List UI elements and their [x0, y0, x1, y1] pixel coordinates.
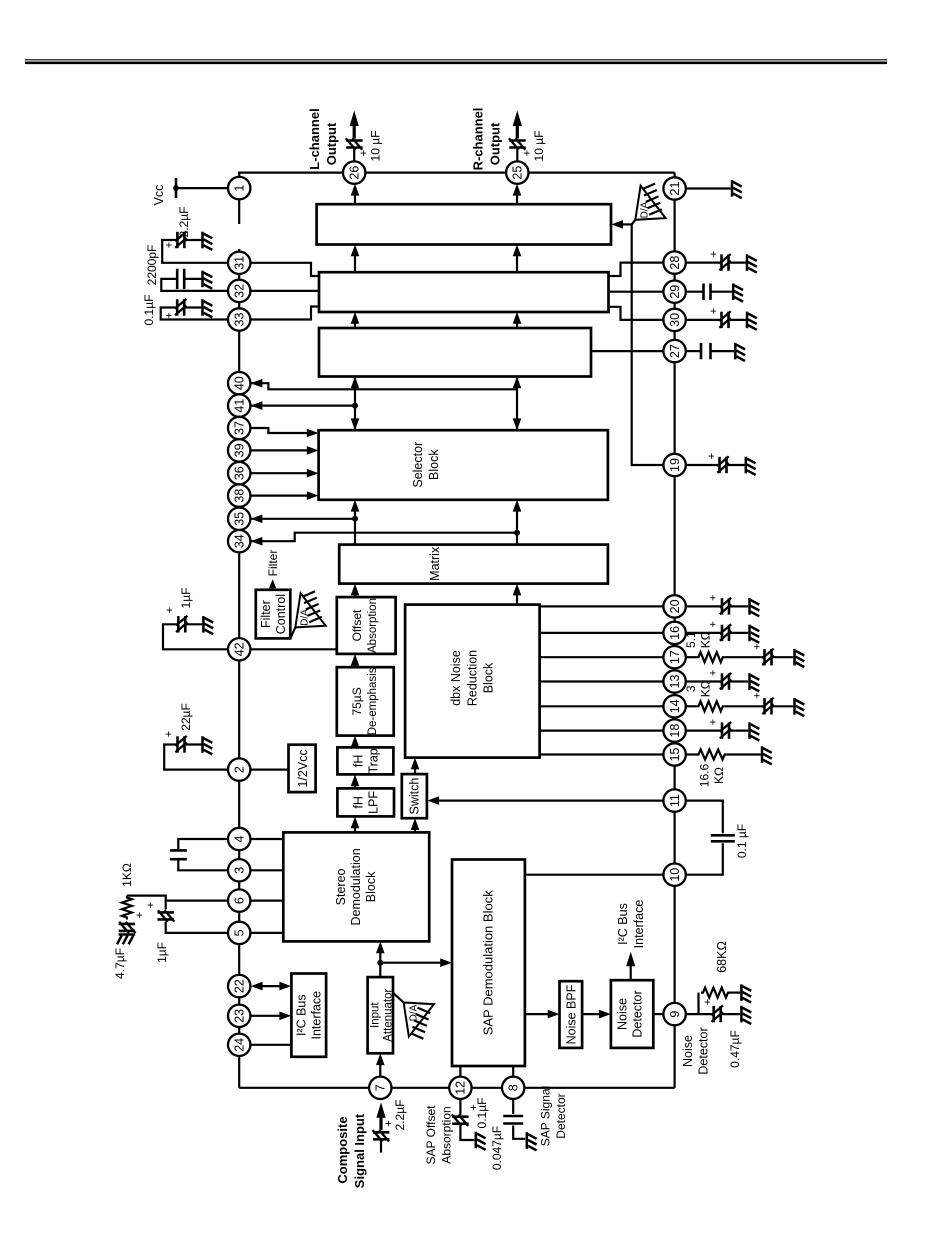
svg-text:KΩ: KΩ — [699, 631, 713, 648]
svg-text:Detector: Detector — [554, 1093, 568, 1138]
capacitor 1uF (pin 42) — [176, 616, 187, 633]
wire: cap to ground — [513, 1126, 525, 1139]
wire: cap to ground — [460, 1125, 474, 1140]
svg-text:19: 19 — [668, 458, 682, 472]
capacitor 10uF (pin 25) — [509, 138, 526, 149]
svg-text:Noise BPF: Noise BPF — [565, 984, 579, 1044]
svg-text:36: 36 — [233, 466, 247, 480]
capacitor 4.7uF — [119, 922, 136, 933]
wire: fH LPF to fH Trap arrow — [354, 779, 356, 788]
pin 2 — [228, 758, 250, 780]
wire: SAP to Noise BPF arrow — [525, 1013, 555, 1015]
resistor 68Kohm — [701, 988, 730, 998]
resistor 3KΩ (pin 14) — [697, 701, 725, 711]
svg-text:42: 42 — [233, 642, 247, 656]
capacitor 1uF (pins 6-5) — [165, 901, 167, 910]
wire: Stereo to Switch arrow — [414, 823, 416, 833]
svg-text:+: + — [706, 453, 718, 459]
capacitor 2.2uF (input) — [373, 1130, 390, 1141]
wire: pin 34 tap to R path — [250, 533, 517, 542]
ground (1uF pin42) — [203, 616, 213, 634]
wire: 1uF to pin 5 — [166, 922, 229, 933]
pin 16 — [663, 622, 685, 644]
ground (2200pF) — [203, 271, 213, 289]
wire: R path B to A arrow — [516, 249, 518, 272]
junction: pin35/L-path — [352, 516, 358, 522]
svg-text:Matrix: Matrix — [428, 546, 442, 581]
wire: pin 6 up — [127, 896, 228, 901]
wire: cap to ground — [185, 239, 203, 241]
wire: pin 2 to C 22uF — [164, 745, 228, 770]
svg-text:14: 14 — [668, 699, 682, 713]
ground (pin 13) — [750, 673, 760, 691]
ground (pin 27) — [735, 343, 745, 361]
svg-text:Composite: Composite — [335, 1116, 350, 1183]
pin 19 — [663, 454, 685, 476]
block U: Selector Block — [319, 430, 608, 500]
wire: cap to ground — [185, 743, 202, 745]
wire: to ground — [772, 705, 794, 707]
wire: BPF to Noise Detector arrow — [582, 1013, 606, 1015]
wire: main bottom bus — [673, 200, 675, 1088]
svg-text:3: 3 — [684, 685, 698, 692]
ground (pin 15) — [762, 746, 772, 764]
wire: to ground — [729, 632, 748, 634]
svg-text:32: 32 — [233, 284, 247, 298]
block U: fH Trap — [337, 747, 393, 774]
block U: Noise Detector — [611, 980, 653, 1048]
wire: dbx to pin 14 — [540, 705, 664, 707]
wire: resistor to cap — [725, 705, 765, 707]
wire: cap to ground — [184, 278, 202, 280]
pin 9 — [663, 1003, 685, 1025]
svg-text:Detector: Detector — [631, 990, 645, 1037]
pin 27 — [663, 340, 685, 362]
wire: to ground — [729, 319, 746, 321]
wire: pin 27 to amp3 — [591, 350, 663, 352]
capacitor (pin 16) — [720, 624, 731, 641]
wire: 75uS to Offset arrow — [354, 659, 356, 668]
svg-text:I²C Bus: I²C Bus — [295, 994, 309, 1036]
svg-text:31: 31 — [233, 256, 247, 270]
wire: pin 37 to Selector — [250, 428, 314, 433]
svg-text:Reduction: Reduction — [466, 650, 480, 706]
ground (pin 16) — [750, 625, 760, 643]
capacitor (pin 28) — [719, 254, 730, 271]
svg-text:30: 30 — [668, 313, 682, 327]
block U: Switch — [402, 774, 427, 818]
wire: R path C to B arrow — [516, 317, 518, 328]
capacitor (pin 19) — [717, 456, 728, 473]
wire: dbx to pin 18 — [540, 729, 664, 731]
svg-text:16: 16 — [668, 626, 682, 640]
wire: pin 23 arrow to I2C — [250, 1015, 287, 1017]
pin 18 — [663, 719, 685, 741]
svg-text:L-channel: L-channel — [307, 108, 322, 169]
wire: resistor to cap — [725, 656, 765, 658]
pin 5 — [228, 922, 250, 944]
wire: pin 26 to output cap — [353, 149, 355, 161]
wire: left bus down to pin 7/12/8 — [239, 1087, 674, 1089]
svg-text:20: 20 — [668, 599, 682, 613]
wire: pin 31 to C 2.2uF — [162, 240, 228, 263]
svg-text:0.47µF: 0.47µF — [728, 1030, 742, 1068]
wire: Noise Detector to I2C arrow — [630, 959, 632, 980]
resistor 5.1KΩ (pin 17) — [697, 652, 725, 662]
wire: L path Selector-C double arrow — [354, 377, 356, 431]
pin 29 — [663, 281, 685, 303]
capacitor (pin 13) — [720, 673, 731, 690]
capacitor (pin 14) — [762, 698, 773, 715]
block U: Input Attenuator — [368, 977, 393, 1053]
wire: pin 4 to stereo block — [250, 838, 283, 840]
wire: Stereo to fH LPF arrow — [354, 821, 356, 832]
wire: cap to ground — [185, 306, 203, 308]
svg-text:0.1µF: 0.1µF — [475, 1098, 489, 1129]
svg-text:Output: Output — [487, 122, 502, 165]
wire: pin 2 to 1/2Vcc — [250, 768, 288, 770]
pin 11 — [663, 789, 685, 811]
svg-text:Selector: Selector — [411, 442, 425, 488]
capacitor (pin 20) — [720, 598, 731, 615]
svg-text:26: 26 — [348, 166, 362, 180]
wire: pin 20 down — [686, 605, 722, 607]
svg-text:Block: Block — [364, 871, 378, 902]
block: amplifier 2 (unlabeled) — [319, 272, 609, 312]
wire: pin 21 to ground — [686, 187, 731, 189]
svg-text:6: 6 — [233, 897, 247, 904]
pin 31 — [228, 252, 250, 274]
svg-text:1µF: 1µF — [179, 588, 193, 609]
wire: pin 33 to C 0.1uF — [161, 308, 229, 320]
D/A converter (output amp) — [632, 184, 666, 225]
svg-text:+: + — [708, 621, 720, 627]
ground (22uF) — [203, 736, 213, 754]
wire: to ground — [729, 680, 748, 682]
wire: D/A control line to pin 19 — [632, 224, 664, 465]
svg-text:10: 10 — [668, 868, 682, 882]
svg-text:R-channel: R-channel — [470, 108, 485, 171]
resistor 16.6Kohm (pin 15) — [697, 750, 727, 760]
svg-text:Detector: Detector — [697, 1027, 711, 1074]
D/A converter (filter control) — [290, 591, 325, 638]
wire: attenuator out / junction — [379, 946, 381, 977]
wire: pin 3 to stereo block — [250, 869, 283, 871]
svg-text:Control: Control — [274, 594, 288, 634]
svg-text:KΩ: KΩ — [712, 767, 726, 784]
svg-text:25: 25 — [511, 166, 525, 180]
pin 33 — [228, 308, 250, 330]
wire: pin 12 cap chain — [459, 1099, 461, 1115]
wire: pin 27 down — [686, 350, 701, 352]
pin 37 — [228, 417, 250, 439]
wire: pin 29 to amp2 — [609, 291, 664, 293]
wire: dbx to pin 17 — [540, 656, 664, 658]
svg-text:KΩ: KΩ — [699, 680, 713, 697]
svg-text:37: 37 — [233, 421, 247, 435]
wire: cap to ground — [186, 623, 204, 625]
capacitor 0.1uF (pin 33) — [175, 299, 186, 316]
wire: dbx to pin 20 — [540, 605, 664, 607]
capacitor (pin 18) — [720, 722, 731, 739]
wire: pin 40 tap to R path — [250, 383, 517, 389]
svg-text:0.1µF: 0.1µF — [142, 295, 156, 326]
pin 28 — [663, 251, 685, 273]
wire: pin 28 down — [686, 261, 722, 263]
wire: pin 7 to Input Attenuator arrow — [379, 1058, 381, 1077]
svg-text:41: 41 — [233, 399, 247, 413]
svg-text:SAP Demodulation Block: SAP Demodulation Block — [481, 890, 496, 1036]
pin 38 — [228, 484, 250, 506]
svg-text:+: + — [164, 312, 176, 318]
svg-text:9: 9 — [668, 1011, 682, 1018]
svg-text:38: 38 — [233, 489, 247, 503]
wire: pin 24 to I2C — [250, 1044, 291, 1046]
ground (pin 12) — [476, 1132, 486, 1150]
capacitor 0.1uF (pins 11-10) — [711, 835, 735, 841]
pin 13 — [663, 670, 685, 692]
wire: pin 38 to Selector — [250, 494, 314, 496]
pin 8 — [502, 1077, 524, 1099]
ground (pin 8) — [527, 1132, 537, 1150]
svg-text:+: + — [134, 912, 146, 918]
svg-text:Filter: Filter — [259, 600, 273, 628]
wire: pin 13 down — [686, 680, 722, 682]
Vcc supply symbol — [173, 178, 228, 198]
svg-text:Block: Block — [482, 662, 496, 693]
output arrow (L-channel) — [353, 125, 356, 139]
svg-text:Interface: Interface — [632, 900, 646, 949]
svg-text:1KΩ: 1KΩ — [120, 863, 134, 887]
capacitor (pin 29) — [704, 284, 711, 300]
svg-text:68KΩ: 68KΩ — [715, 941, 729, 973]
svg-text:1: 1 — [233, 185, 247, 192]
block U: Noise BPF — [560, 981, 583, 1048]
wire: to ground — [711, 350, 735, 352]
svg-text:21: 21 — [668, 182, 682, 196]
svg-text:I²C Bus: I²C Bus — [616, 903, 630, 945]
capacitor 0.1uF (pin 12) — [452, 1115, 469, 1126]
wire: to ground — [711, 291, 733, 293]
svg-text:34: 34 — [233, 534, 247, 548]
ground (2.2uF) — [203, 232, 213, 250]
wire: pin 9 down — [686, 1013, 713, 1015]
svg-text:27: 27 — [668, 344, 682, 358]
svg-text:17: 17 — [668, 650, 682, 664]
block U: 75uS De-emphasis — [337, 667, 394, 735]
ground (pin 30) — [747, 312, 757, 330]
wire: dbx to pin 16 — [540, 632, 664, 634]
pin 41 — [228, 394, 250, 416]
svg-text:Noise: Noise — [681, 1035, 695, 1067]
wire: pin 30 down — [686, 319, 722, 321]
wire: L path B to A arrow — [354, 249, 356, 272]
svg-text:D/A: D/A — [300, 609, 311, 626]
wire: L path A to pin 26 arrow — [354, 189, 356, 204]
svg-text:40: 40 — [233, 376, 247, 390]
wire: pin 28 to amp2 — [609, 263, 664, 276]
wire: Filter output arrow — [272, 584, 274, 590]
svg-text:39: 39 — [233, 443, 247, 457]
wire: pin 8 cap chain — [512, 1099, 514, 1114]
pin 22 — [228, 975, 250, 997]
wire: SAP out to pin 10 — [525, 874, 664, 876]
svg-text:12: 12 — [454, 1081, 468, 1095]
ground (pin 29) — [733, 283, 743, 301]
wire: pin 35 tap to L path — [250, 518, 355, 520]
pin 25 — [506, 161, 528, 183]
svg-text:24: 24 — [233, 1038, 247, 1052]
svg-text:Demodulation: Demodulation — [349, 848, 363, 925]
svg-text:Vcc: Vcc — [152, 185, 166, 206]
capacitor (pin 17) — [762, 649, 773, 666]
svg-text:Absorption: Absorption — [367, 598, 379, 653]
ground (4.7uF) — [117, 935, 135, 945]
ground (pin 19) — [746, 457, 756, 475]
svg-text:8: 8 — [507, 1084, 521, 1091]
svg-text:fH: fH — [352, 796, 366, 809]
svg-text:Trap: Trap — [367, 748, 381, 773]
pin 14 — [663, 695, 685, 717]
svg-text:Switch: Switch — [408, 778, 422, 815]
wire: pin 41 tap to L path — [250, 404, 355, 406]
wire: pin 17 down — [686, 656, 697, 658]
svg-text:1/2Vcc: 1/2Vcc — [296, 749, 310, 787]
wire: pin 11 to bridge cap — [686, 801, 723, 834]
svg-text:2.2µF: 2.2µF — [393, 1100, 407, 1131]
pin 40 — [228, 372, 250, 394]
pin 17 — [663, 646, 685, 668]
svg-text:16.6: 16.6 — [698, 763, 712, 787]
svg-text:5: 5 — [233, 929, 247, 936]
svg-text:Block: Block — [427, 449, 441, 480]
resistor 1Kohm — [122, 896, 132, 920]
wire: pin 8 stub — [512, 1066, 514, 1077]
ground (68K) — [741, 984, 751, 1002]
svg-text:+: + — [164, 242, 176, 248]
pin 7 — [369, 1077, 391, 1099]
wire: pin 30 to amp2 — [609, 307, 664, 320]
wire: pin 29 down — [686, 291, 704, 293]
capacitor 0.047uF (pin 8) — [503, 1116, 523, 1124]
pin 4 — [228, 828, 250, 850]
block U: dbx Noise Reduction Block — [405, 605, 539, 758]
wire: pin 36 to Selector — [250, 472, 314, 474]
svg-text:13: 13 — [668, 675, 682, 689]
input arrow to pin 7 — [379, 1118, 382, 1131]
svg-text:35: 35 — [233, 512, 247, 526]
wire: Noise Detector to pin 9 — [653, 1013, 663, 1015]
block U: Filter Control — [256, 590, 290, 639]
wire: bridge cap to pin 10 — [686, 843, 723, 874]
output arrow (R-channel) — [516, 125, 519, 139]
pin 12 — [449, 1077, 471, 1099]
svg-text:11: 11 — [668, 794, 682, 807]
svg-text:+: + — [708, 595, 720, 601]
svg-text:Signal Input: Signal Input — [352, 1113, 367, 1188]
svg-text:+: + — [163, 731, 175, 737]
pin 24 — [228, 1034, 250, 1056]
wire: resistor to ground — [727, 753, 761, 755]
pin 42 — [228, 638, 250, 660]
block U: Offset Absorption — [337, 597, 396, 654]
pin 36 — [228, 462, 250, 484]
capacitor 10uF (pin 26) — [346, 138, 363, 149]
svg-text:Noise: Noise — [616, 998, 630, 1030]
wire: D/A to output amp arrow — [616, 223, 632, 225]
pin 26 — [343, 161, 365, 183]
wire: pin 19 down — [686, 464, 720, 466]
wire: pin 32 to C 2200pF — [161, 279, 228, 291]
wire: cap to ground — [721, 1013, 741, 1015]
ground (pin 20) — [750, 598, 760, 616]
svg-text:dbx Noise: dbx Noise — [449, 650, 463, 706]
capacitor (pins 4-3) — [170, 850, 187, 859]
header double rule — [25, 60, 887, 63]
svg-text:2200pF: 2200pF — [145, 245, 159, 286]
capacitor 2200pF (pin 32) — [177, 269, 184, 289]
svg-text:18: 18 — [668, 724, 682, 738]
capacitor (pin 27) — [701, 343, 711, 359]
ground (pin 28) — [747, 254, 757, 272]
block U: Stereo Demodulation Block — [283, 832, 429, 941]
svg-text:+: + — [708, 251, 720, 257]
svg-text:D/A: D/A — [640, 201, 651, 218]
wire: composite input stub — [380, 1141, 382, 1153]
svg-text:Filter: Filter — [266, 550, 280, 577]
svg-text:22: 22 — [233, 979, 247, 993]
block: 1/2Vcc reference — [289, 745, 316, 792]
D/A converter (input attenuator) — [393, 993, 434, 1039]
pin 3 — [228, 859, 250, 881]
svg-text:29: 29 — [668, 285, 682, 299]
svg-text:0.1 µF: 0.1 µF — [735, 824, 749, 858]
svg-text:D/A: D/A — [409, 1004, 420, 1021]
wire: dbx to pin 15 — [540, 753, 664, 755]
wire: R path A to pin 25 arrow — [516, 189, 518, 204]
wire: to ground — [772, 656, 794, 658]
pin 21 — [663, 177, 685, 199]
svg-text:SAP Offset: SAP Offset — [424, 1105, 438, 1165]
svg-text:+: + — [752, 692, 764, 698]
svg-text:+: + — [708, 719, 720, 725]
pin 20 — [663, 595, 685, 617]
block U: SAP Demodulation Block — [452, 860, 525, 1067]
wire: pin 42 to Offset Absorption — [250, 648, 336, 650]
wire: to ground — [729, 605, 748, 607]
wire: fH Trap to 75uS arrow — [354, 740, 356, 747]
svg-text:Interface: Interface — [310, 991, 324, 1040]
wire: to ground — [727, 464, 745, 466]
junction: input node — [377, 960, 383, 966]
wire: pin 18 down — [686, 729, 722, 731]
svg-text:+: + — [702, 999, 714, 1005]
svg-text:+: + — [145, 902, 157, 908]
wire: pin 14 down — [686, 705, 697, 707]
capacitor 0.47uF (pin 9) — [712, 1006, 723, 1023]
wire: pin 6 to stereo block — [250, 899, 283, 901]
wire: pin 42 to C 1uF — [163, 624, 228, 649]
svg-text:10 µF: 10 µF — [532, 131, 546, 162]
svg-text:Output: Output — [324, 122, 339, 165]
svg-text:Offset: Offset — [350, 609, 364, 641]
block: amplifier 3 (unlabeled) — [319, 328, 591, 377]
svg-text:+: + — [752, 643, 764, 649]
wire: to ground — [729, 261, 746, 263]
block U: I2C Bus Interface — [291, 974, 326, 1057]
pin 23 — [228, 1005, 250, 1027]
capacitor 22uF (pin 2) — [175, 736, 186, 753]
